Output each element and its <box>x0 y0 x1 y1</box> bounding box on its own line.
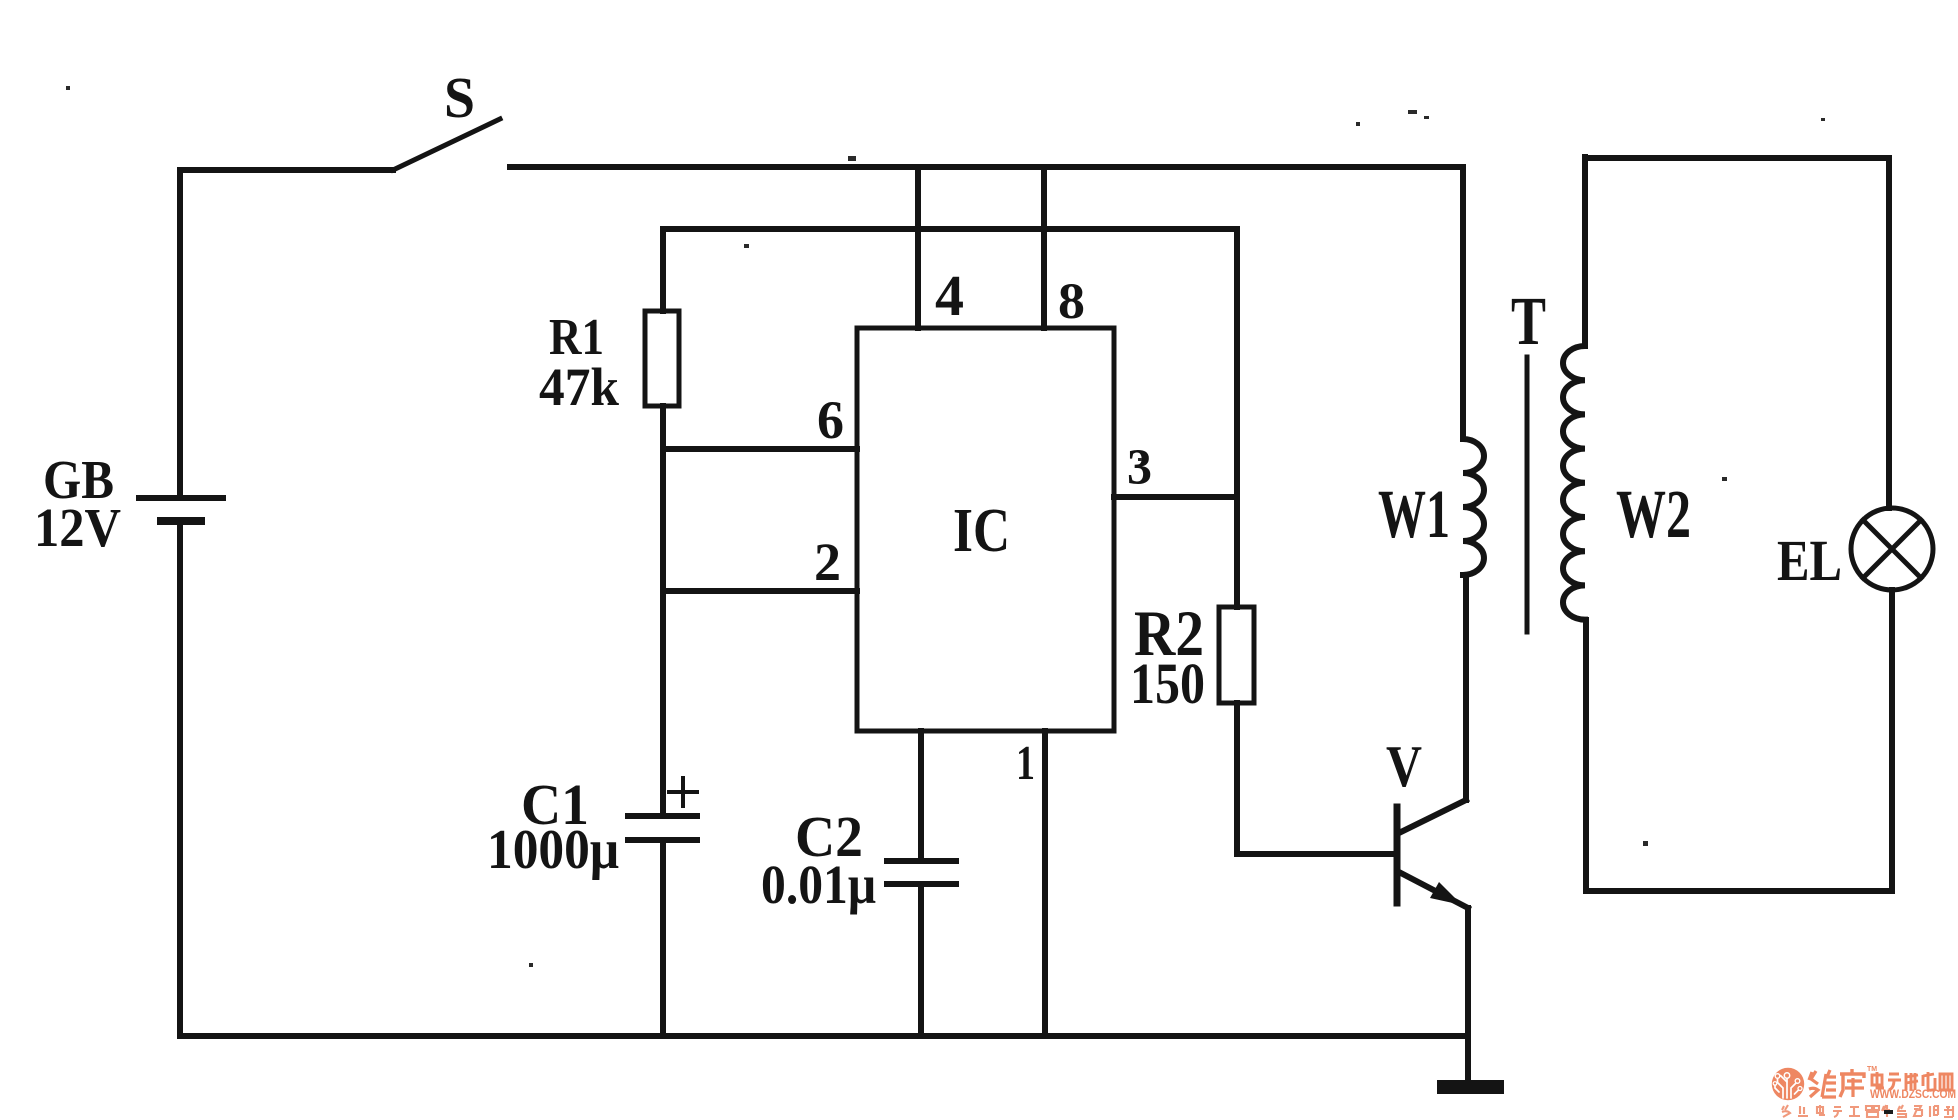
wire left rail bottom (battery - to bottom rail) <box>177 521 183 1036</box>
svg-text:1: 1 <box>1016 735 1035 790</box>
svg-text:T: T <box>1511 283 1546 359</box>
capacitor C2 bottom plate <box>887 881 956 887</box>
ground symbol <box>1437 1080 1504 1094</box>
svg-text:S: S <box>444 65 475 130</box>
wire right loop right vertical upper <box>1886 158 1892 508</box>
transistor V emitter arrowhead <box>1430 882 1462 905</box>
svg-text:47k: 47k <box>539 357 619 417</box>
wire W1 top vertical <box>1460 167 1466 439</box>
wire R1 top lead <box>660 229 666 311</box>
svg-text:4: 4 <box>935 263 964 328</box>
switch S arm <box>393 119 500 170</box>
capacitor C1 plus sign <box>669 778 697 806</box>
wire W2 bottom vertical <box>1583 620 1589 891</box>
wire lamp bottom vertical <box>1889 590 1895 891</box>
wire C2 top lead (IC bottom left) <box>918 731 924 858</box>
svg-text:2: 2 <box>814 532 841 592</box>
wire C1 bottom lead <box>660 843 666 1036</box>
wire right loop top rail <box>1585 155 1889 161</box>
svg-text:0.01μ: 0.01μ <box>761 854 876 915</box>
wire pin2 horizontal <box>663 588 857 594</box>
battery GB short plate <box>161 517 201 525</box>
transistor V emitter diagonal <box>1399 872 1468 908</box>
svg-text:TM: TM <box>1867 1066 1877 1073</box>
svg-text:IC: IC <box>953 497 1010 565</box>
svg-text:V: V <box>1386 733 1422 799</box>
wire R2 bottom lead <box>1234 703 1240 854</box>
wire pin8 vertical <box>1041 167 1047 328</box>
svg-text:12V: 12V <box>34 497 121 558</box>
svg-text:3: 3 <box>1127 440 1152 496</box>
wire left rail top (battery + to top rail) <box>177 170 183 498</box>
lamp EL circle <box>1851 508 1933 590</box>
capacitor C1 bottom plate <box>628 837 697 843</box>
wire top rail B (switch to W1) <box>510 164 1463 170</box>
svg-text:W1: W1 <box>1378 476 1450 552</box>
wire R1 bottom lead to C1 <box>660 406 666 813</box>
wire emitter vertical to ground <box>1465 908 1471 1080</box>
watermark dianzishichangwang <box>1872 1072 1952 1090</box>
scan speck dash <box>1884 1110 1893 1114</box>
wire pin1 vertical <box>1042 731 1048 1036</box>
svg-text:1000μ: 1000μ <box>487 819 619 881</box>
wire collector vertical to W1 <box>1463 575 1469 800</box>
watermark logo circle <box>1772 1068 1804 1100</box>
svg-text:EL: EL <box>1777 528 1842 593</box>
wire C1 top lead <box>660 770 666 813</box>
wire top rail A (battery to switch) <box>180 167 393 173</box>
wire bottom ground rail <box>180 1033 1468 1039</box>
wire R2 top vertical <box>1234 229 1240 607</box>
wire pin3 horizontal <box>1114 494 1237 500</box>
inductor W1 coil <box>1463 439 1484 575</box>
watermark tagline <box>1782 1105 1953 1117</box>
wire pin4 vertical <box>915 167 921 328</box>
wire C2 bottom lead <box>918 887 924 1036</box>
wire pin6 horizontal <box>663 446 857 452</box>
capacitor C2 top plate <box>887 858 956 864</box>
transistor V base bar <box>1394 807 1401 903</box>
svg-text:6: 6 <box>817 390 844 450</box>
watermark wordmark wei <box>1809 1070 1836 1097</box>
lamp EL cross <box>1863 520 1921 578</box>
IC box U1 <box>857 328 1114 731</box>
wire right loop bottom rail <box>1586 888 1892 894</box>
watermark logo group <box>1772 1068 1804 1100</box>
inductor W2 coil <box>1563 346 1585 620</box>
resistor R2 body <box>1219 607 1254 703</box>
watermark wordmark ku <box>1840 1069 1864 1097</box>
resistor R1 body <box>645 311 679 406</box>
svg-text:W2: W2 <box>1616 476 1691 552</box>
svg-text:8: 8 <box>1058 274 1085 330</box>
battery GB long plate <box>139 495 223 501</box>
transformer T core <box>1525 357 1530 632</box>
wire W2 top vertical <box>1582 157 1588 346</box>
svg-text:150: 150 <box>1130 651 1205 716</box>
scan specks <box>66 86 1825 967</box>
svg-text:WWW.DZSC.COM: WWW.DZSC.COM <box>1870 1089 1956 1101</box>
wire base horizontal <box>1237 851 1394 857</box>
watermark logo circuit tree <box>1775 1076 1799 1099</box>
wire second rail (R1 top to R2 top) <box>663 226 1237 232</box>
transistor V collector diagonal <box>1399 800 1466 833</box>
capacitor C1 top plate <box>628 813 697 819</box>
